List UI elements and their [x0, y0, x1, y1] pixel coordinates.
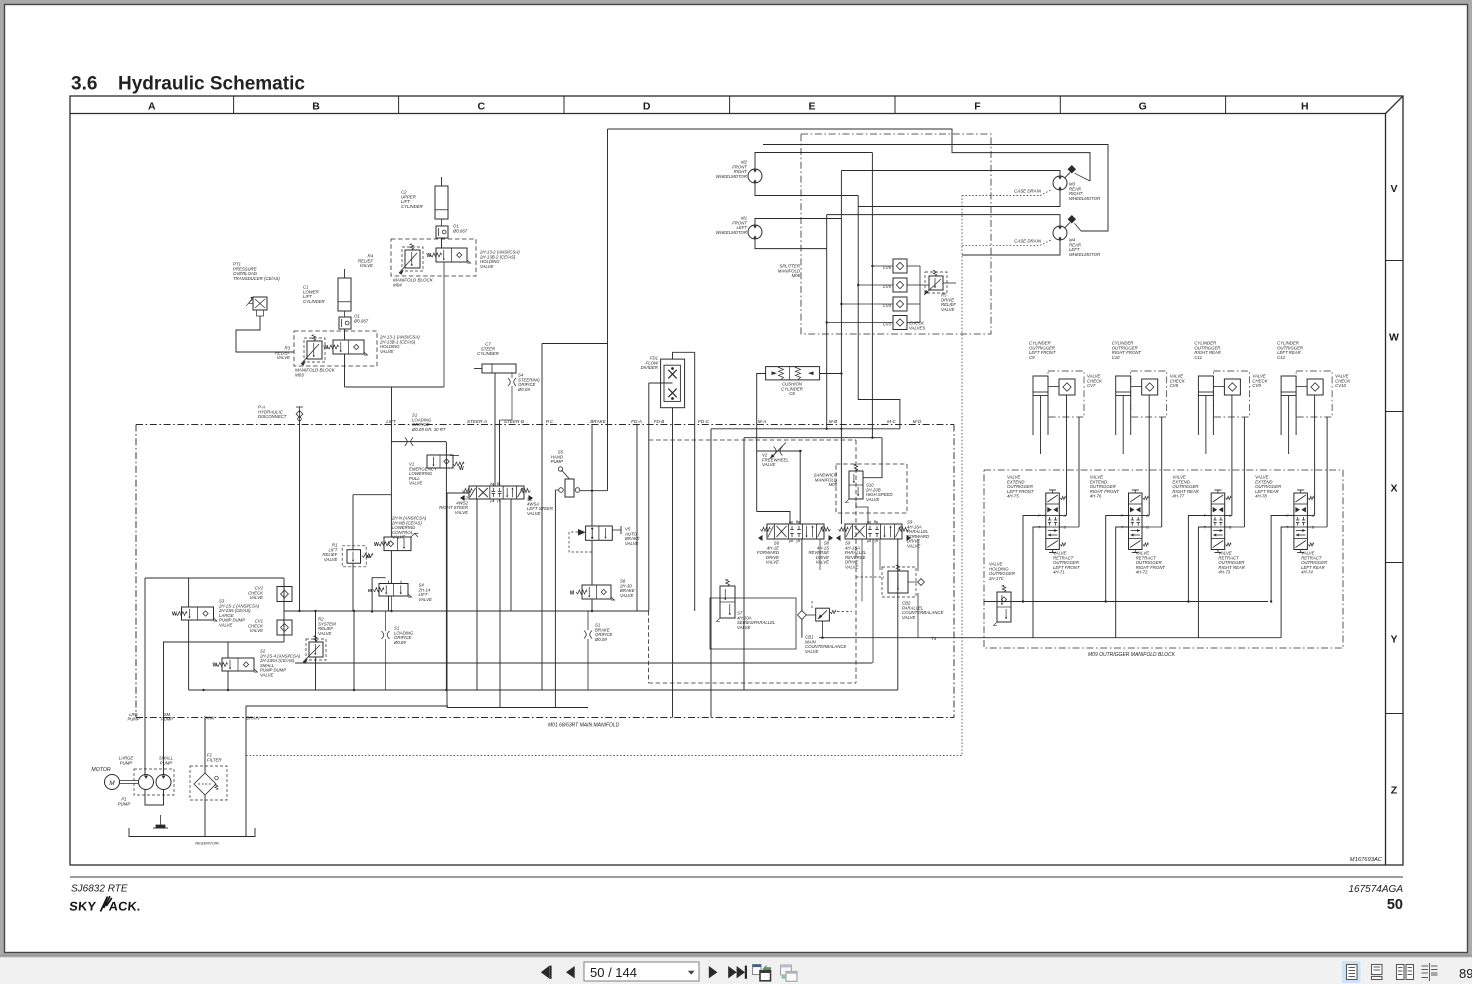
wire S4 to tank line	[388, 596, 390, 612]
wire lift stem	[390, 442, 392, 537]
svg-text:M: M	[367, 554, 371, 559]
svg-text:F: F	[974, 101, 981, 113]
wire FD-C drop	[694, 352, 696, 611]
svg-text:DIVIDER: DIVIDER	[641, 365, 658, 370]
svg-text:4H-71: 4H-71	[1053, 570, 1065, 575]
svg-text:CASE DRAIN: CASE DRAIN	[1014, 189, 1042, 194]
svg-text:VALVE: VALVE	[766, 560, 780, 565]
svg-text:W: W	[1389, 331, 1399, 343]
outrigger control valve 4H-78	[1294, 493, 1308, 550]
svg-text:VALVE: VALVE	[866, 497, 880, 502]
wire cushion right	[820, 373, 842, 375]
wheel motor M3 rear right	[1053, 176, 1067, 190]
svg-text:VALVE: VALVE	[277, 355, 291, 360]
flow divider FD1	[661, 359, 685, 408]
svg-text:WHEELMOTOR: WHEELMOTOR	[716, 174, 747, 179]
orifice O1 under C2	[441, 219, 443, 226]
svg-text:C12: C12	[1277, 355, 1285, 360]
loading orifice near R2	[382, 631, 384, 639]
outrigger cylinder C11	[1198, 376, 1213, 435]
svg-text:D: D	[643, 101, 651, 113]
svg-text:CV7: CV7	[1087, 383, 1096, 388]
wire pressure riser	[541, 344, 543, 691]
svg-text:VALVE: VALVE	[419, 597, 433, 602]
case drain M3 dashed	[962, 195, 1040, 197]
toolbar next-view icon (disabled)	[781, 965, 792, 975]
svg-text:Ø0.067: Ø0.067	[452, 228, 468, 233]
wires valve 4H-76 to rails	[1106, 516, 1129, 602]
SkyJack logo	[69, 896, 142, 913]
wire hand pump right	[580, 490, 608, 492]
motor shaft	[120, 780, 139, 782]
series parallel valve S7	[720, 586, 735, 618]
wire drive loop bottom	[542, 343, 608, 345]
wire check stack	[283, 578, 285, 642]
toolbar background	[0, 958, 1472, 984]
svg-text:CV8: CV8	[1170, 383, 1179, 388]
wire M1 bottom	[755, 239, 827, 249]
check valve CV8	[1142, 379, 1158, 395]
outrigger cylinder C9	[1033, 376, 1048, 435]
wire lift riser	[607, 344, 609, 491]
valve S3 large pump dump	[182, 607, 214, 620]
wire lower rails	[295, 662, 872, 664]
drive bus riser 4	[826, 215, 828, 429]
wire M03 down	[344, 354, 346, 387]
svg-text:FD-C: FD-C	[698, 419, 710, 424]
wire M3 bottom	[858, 190, 1060, 207]
svg-text:CYLINDER: CYLINDER	[303, 299, 325, 304]
svg-text:VALVES: VALVES	[909, 325, 925, 330]
cylinder C1 lower lift	[338, 278, 351, 311]
manifold block M03 boundary	[294, 331, 377, 366]
svg-text:VALVE: VALVE	[380, 349, 394, 354]
svg-text:M05: M05	[829, 482, 838, 487]
check valve CV5	[893, 278, 907, 292]
svg-text:W: W	[459, 466, 464, 472]
cushion cylinder C8	[766, 367, 820, 380]
lift valve S4 2H-14	[379, 584, 408, 597]
svg-text:W: W	[172, 612, 177, 618]
wire M2 top	[755, 153, 872, 170]
wires valve 4H-75 to rails	[1023, 516, 1046, 602]
svg-text:ACK.: ACK.	[108, 900, 141, 914]
wire lift line to LIFT port	[391, 387, 393, 442]
wire hand pump left	[555, 489, 558, 491]
toolbar first-page button	[541, 966, 552, 979]
relief valve R1 lift	[347, 550, 361, 564]
svg-text:X: X	[1390, 482, 1397, 494]
wheel motor M1 front left	[748, 225, 762, 239]
svg-text:PUMP: PUMP	[160, 760, 173, 765]
wire S3 drop	[188, 578, 190, 607]
svg-text:Ø0.09: Ø0.09	[594, 637, 607, 642]
svg-text:VALVE: VALVE	[260, 673, 274, 678]
wire cushion left	[757, 374, 766, 512]
freewheel line	[757, 450, 802, 452]
wire drive tank drops	[872, 539, 874, 663]
wire to V5	[591, 491, 593, 526]
wire checks to bus	[872, 265, 893, 267]
cylinder C2 upper lift	[435, 186, 448, 219]
svg-text:Z: Z	[1391, 784, 1398, 796]
svg-text:TRANSDUCER (CE/AS): TRANSDUCER (CE/AS)	[233, 276, 280, 281]
wire FD1 top	[673, 352, 695, 359]
svg-text:PUMP: PUMP	[161, 717, 173, 722]
svg-text:VALVE: VALVE	[907, 544, 921, 549]
valve S6 brake	[582, 585, 611, 599]
svg-text:VALVE: VALVE	[762, 462, 776, 467]
drive bus riser 3	[840, 171, 842, 525]
valve V5 auto brake	[586, 526, 613, 540]
wire M1 top	[755, 219, 841, 226]
svg-text:VALVE: VALVE	[941, 307, 955, 312]
svg-text:M: M	[368, 588, 372, 593]
pilot dash line CB2	[856, 576, 884, 578]
wire T4 line	[819, 637, 1281, 639]
valve S2 small pump dump	[222, 658, 254, 671]
svg-text:Ø0.09: Ø0.09	[517, 387, 530, 392]
svg-text:Ø0.09 GR. 30 RT: Ø0.09 GR. 30 RT	[411, 427, 446, 432]
manifold boundary M09 outrigger block	[984, 470, 1343, 648]
svg-text:VALVE: VALVE	[737, 625, 751, 630]
svg-text:P: P	[1286, 514, 1289, 518]
svg-text:VALVE: VALVE	[805, 649, 819, 654]
freewheel valve V2	[774, 447, 777, 456]
svg-text:A: A	[148, 101, 156, 113]
wire lift junction horizontal	[345, 386, 445, 388]
wire valve A bottom to CB1	[801, 539, 803, 611]
wire R1 branch	[353, 494, 391, 496]
steering orifice	[508, 378, 510, 386]
svg-text:4H-73: 4H-73	[1218, 570, 1230, 575]
svg-text:M-A: M-A	[758, 419, 766, 424]
toolbar single-page layout button (active)	[1342, 961, 1361, 983]
wires cylinder C10 to valves	[1148, 395, 1150, 516]
wire M-B to sandwich	[863, 438, 882, 478]
wire S6 to orifice	[591, 599, 593, 611]
svg-text:B: B	[497, 482, 500, 486]
wire valve B bottoms	[861, 539, 863, 602]
svg-text:4H-72: 4H-72	[1136, 570, 1148, 575]
svg-text:PUMP: PUMP	[127, 717, 139, 722]
svg-text:M-D: M-D	[913, 419, 922, 424]
svg-text:VALVE: VALVE	[480, 264, 494, 269]
svg-text:M03: M03	[295, 373, 304, 378]
outrigger dash-dot box C11	[1213, 371, 1249, 417]
holding valve 2H-13-1	[333, 340, 364, 354]
outrigger feed rail	[984, 601, 1268, 603]
wire C1 to M03	[344, 329, 346, 340]
wire BRAKE drop	[591, 425, 593, 491]
drive bus riser 1	[871, 153, 873, 438]
loading orifice S1	[392, 441, 447, 443]
drive section dashed boundary right	[855, 440, 857, 683]
svg-text:4H-75: 4H-75	[1007, 494, 1019, 499]
svg-text:A: A	[1312, 514, 1315, 518]
svg-text:P: P	[1038, 514, 1041, 518]
wire drain column	[245, 706, 247, 837]
case drain M4 dashed	[962, 244, 1040, 246]
svg-text:W: W	[213, 663, 218, 669]
wire M-B rail	[744, 437, 882, 439]
wire FD-B drop	[648, 383, 650, 611]
wire M04 down to junction	[443, 262, 445, 387]
drive section dashed boundary bottom	[649, 682, 857, 684]
schematic border frame	[70, 96, 1403, 865]
wire small pump line	[163, 642, 165, 775]
svg-text:VALVE: VALVE	[392, 535, 406, 540]
wire V5 to S6	[591, 540, 593, 585]
wire M4 brake release	[1089, 145, 1091, 153]
svg-text:H: H	[1301, 101, 1309, 113]
svg-text:E: E	[808, 101, 815, 113]
quick disconnect P-A	[299, 407, 301, 420]
svg-text:M04: M04	[393, 283, 402, 288]
svg-text:M01 68/63RT MAIN MANIFOLD: M01 68/63RT MAIN MANIFOLD	[548, 723, 620, 729]
manifold block M04 boundary	[391, 239, 476, 276]
svg-text:VALVE: VALVE	[250, 628, 264, 633]
svg-text:W: W	[324, 345, 329, 351]
filter F1	[194, 773, 216, 795]
tank return line	[285, 610, 650, 612]
drive section dashed boundary left	[648, 611, 650, 683]
svg-text:Ø0.09: Ø0.09	[393, 640, 406, 645]
toolbar last-page button	[728, 966, 747, 979]
svg-text:M06: M06	[792, 273, 801, 278]
svg-text:C: C	[478, 101, 486, 113]
wire drain rail	[246, 705, 448, 707]
wire CB1 down	[801, 619, 803, 637]
pump P1 large	[139, 775, 154, 790]
svg-text:G: G	[1139, 101, 1147, 113]
svg-text:VALVE: VALVE	[902, 615, 916, 620]
counterbalance valve CB1	[816, 608, 830, 621]
svg-text:PUMP: PUMP	[120, 760, 133, 765]
svg-text:A: A	[1229, 514, 1232, 518]
drive bus riser 2	[858, 196, 900, 429]
wire FD1 bottom drop	[672, 408, 674, 718]
toolbar next-page button	[709, 966, 718, 978]
svg-text:B: B	[874, 520, 877, 524]
svg-text:P: P	[789, 540, 792, 544]
svg-text:W: W	[374, 542, 379, 548]
svg-text:T4: T4	[931, 636, 937, 641]
svg-text:167574AGA: 167574AGA	[1349, 884, 1404, 895]
wire pump pressure rail	[145, 577, 284, 579]
wire valve A top ports	[757, 512, 790, 525]
toolbar continuous-scroll layout button	[1372, 965, 1383, 975]
wire M-A rail	[711, 428, 900, 430]
pilot dashes V5	[569, 532, 592, 552]
svg-text:VALVE: VALVE	[455, 510, 469, 515]
wheel motor M4 rear left	[1053, 226, 1067, 240]
valve V1 emergency lowering	[427, 455, 453, 468]
svg-text:C8: C8	[789, 391, 795, 396]
manifold boundary M01 main manifold top edge with port names	[136, 424, 954, 426]
svg-text:P: P	[490, 500, 493, 504]
cylinder C7 steer	[482, 364, 516, 373]
wire S4 bypass loop	[372, 578, 386, 612]
wire M3 top	[841, 171, 1060, 177]
wire FD-A drop	[636, 425, 638, 612]
svg-text:M-B: M-B	[829, 419, 837, 424]
drive valve S9 parallel	[845, 524, 902, 539]
svg-text:50 / 144: 50 / 144	[590, 965, 637, 980]
svg-text:CV9: CV9	[1252, 383, 1261, 388]
wire CB2 riser	[917, 539, 919, 571]
svg-text:VALVE: VALVE	[219, 623, 233, 628]
svg-text:A: A	[867, 520, 870, 524]
wires cylinder C12 to valves	[1314, 395, 1316, 516]
check valve CV1	[277, 620, 292, 635]
svg-text:VALVE: VALVE	[250, 595, 264, 600]
svg-text:FILTER: FILTER	[207, 757, 221, 762]
svg-text:V: V	[1390, 183, 1397, 195]
svg-text:B: B	[1312, 526, 1315, 530]
svg-text:C9: C9	[1029, 355, 1035, 360]
svg-text:SKY: SKY	[69, 900, 97, 914]
wire FD1 mid tap	[649, 382, 673, 384]
wire big drive loop left	[607, 129, 609, 344]
svg-text:WHEELMOTOR: WHEELMOTOR	[716, 230, 747, 235]
check valve CV9	[1224, 379, 1240, 395]
wire R1 to tank	[352, 563, 354, 611]
wire big drive loop top	[608, 129, 1091, 181]
grid row ticks	[1386, 260, 1404, 262]
relief valve R5 drive	[929, 276, 943, 290]
lowering control valve 2H	[384, 537, 411, 551]
pump P1 small	[156, 775, 171, 790]
check valve CV4	[893, 297, 907, 311]
svg-text:50: 50	[1387, 897, 1403, 913]
outrigger return rail	[984, 637, 1281, 639]
outrigger cylinder C12	[1281, 376, 1296, 435]
outrigger dash-dot box C10	[1131, 371, 1167, 417]
wire tank drop	[353, 611, 355, 690]
drive valve S6/S8 forward-reverse	[767, 524, 824, 539]
svg-text:VALVE: VALVE	[625, 541, 639, 546]
manifold boundary M01 left edge	[135, 425, 137, 718]
pressure transducer PT1	[253, 297, 267, 310]
svg-text:M: M	[570, 591, 574, 597]
check valve CV10	[1307, 379, 1323, 395]
svg-text:MOTOR: MOTOR	[91, 767, 110, 773]
manifold boundary M06 splitter	[801, 134, 991, 334]
svg-text:VALVE: VALVE	[360, 263, 374, 268]
wire orifice to V1 branch	[445, 442, 447, 690]
svg-text:DISCONNECT: DISCONNECT	[258, 414, 287, 419]
wires valve 4H-78 to rails	[1271, 516, 1294, 602]
wire large pump suction	[144, 578, 146, 775]
outrigger cylinder C10	[1116, 376, 1131, 435]
svg-text:VALVE: VALVE	[527, 511, 541, 516]
svg-text:FD-A: FD-A	[631, 419, 642, 424]
svg-text:C11: C11	[1194, 355, 1202, 360]
svg-text:VALVE: VALVE	[409, 481, 423, 486]
svg-text:2H-17C: 2H-17C	[988, 576, 1005, 581]
wire M3 brake release	[1075, 173, 1091, 181]
check valve CV3	[893, 316, 907, 330]
wires cylinder C9 to valves	[1066, 395, 1068, 516]
toolbar page number box	[584, 962, 699, 981]
brake orifice S1	[587, 611, 589, 630]
svg-text:CYLINDER: CYLINDER	[401, 204, 423, 209]
svg-text:VALVE: VALVE	[318, 631, 332, 636]
wires valve 4H-77 to rails	[1188, 516, 1211, 602]
wire freewheel to drive valve	[799, 451, 801, 524]
svg-text:VALVE: VALVE	[816, 560, 830, 565]
counterbalance valve CB2	[888, 571, 908, 593]
wire S2 drop	[227, 642, 229, 658]
wire M4 top	[827, 215, 1060, 226]
svg-text:P: P	[867, 540, 870, 544]
wire P-A down to tank line	[299, 420, 301, 611]
wire S10 down	[856, 502, 868, 524]
hand pump S5	[565, 479, 574, 497]
manifold boundary M01 right edge	[953, 425, 955, 718]
svg-text:B: B	[312, 101, 320, 113]
steer valve S2 4-way	[469, 486, 524, 499]
svg-text:FD-B: FD-B	[654, 419, 665, 424]
svg-text:M-C: M-C	[887, 419, 896, 424]
svg-text:B: B	[796, 520, 799, 524]
wire check stack bottom	[163, 641, 284, 643]
toolbar two-page-scroll layout button	[1422, 963, 1438, 981]
svg-text:VALVE: VALVE	[845, 565, 859, 570]
outrigger dash-dot box C12	[1296, 371, 1332, 417]
svg-text:VALVE: VALVE	[324, 557, 338, 562]
svg-text:M167693AC: M167693AC	[1350, 857, 1383, 863]
svg-text:P.C: P.C	[546, 419, 554, 424]
svg-text:CV10: CV10	[1335, 383, 1346, 388]
svg-text:M09 OUTRIGGER MANIFOLD BLOCK: M09 OUTRIGGER MANIFOLD BLOCK	[1088, 652, 1176, 658]
grid column ticks	[233, 96, 235, 114]
svg-text:VALVE: VALVE	[620, 593, 634, 598]
drain boundary dotted	[246, 196, 962, 756]
footer rule	[70, 876, 1403, 878]
svg-text:SJ6832 RTE: SJ6832 RTE	[71, 884, 128, 895]
outrigger control valve 4H-76	[1129, 493, 1143, 550]
toolbar two-page layout button	[1397, 965, 1405, 980]
svg-text:W: W	[427, 253, 432, 259]
relief valve R3	[304, 338, 325, 362]
filter dashed box	[190, 766, 227, 800]
wire steer valve drops	[447, 493, 469, 708]
high speed valve S10	[849, 471, 863, 499]
svg-text:BRAKE: BRAKE	[590, 419, 607, 424]
svg-text:RESERVOIR: RESERVOIR	[195, 841, 219, 846]
wire M4 right loop	[763, 145, 1108, 232]
wire tank column	[204, 718, 206, 774]
manifold boundary M01 bottom edge	[136, 717, 954, 719]
svg-text:B: B	[1229, 526, 1232, 530]
toolbar previous-page button	[566, 966, 575, 978]
check valve CV7	[1059, 379, 1075, 395]
wire pumps to tank	[145, 790, 164, 806]
junction dots on drive risers	[871, 265, 873, 267]
wire PT1 loop	[236, 316, 294, 352]
wire M-A drop	[710, 429, 712, 718]
outrigger holding valve 2H-17C	[997, 592, 1011, 622]
wire C2 to M04	[441, 238, 443, 248]
electric motor M	[105, 775, 120, 790]
svg-text:CASE DRAIN: CASE DRAIN	[1014, 238, 1042, 243]
wire M2 bottom	[755, 183, 858, 196]
manifold boundary M05 sandwich	[836, 464, 907, 513]
drive section dashed boundary top	[649, 439, 856, 441]
toolbar previous-view icon	[753, 965, 762, 975]
